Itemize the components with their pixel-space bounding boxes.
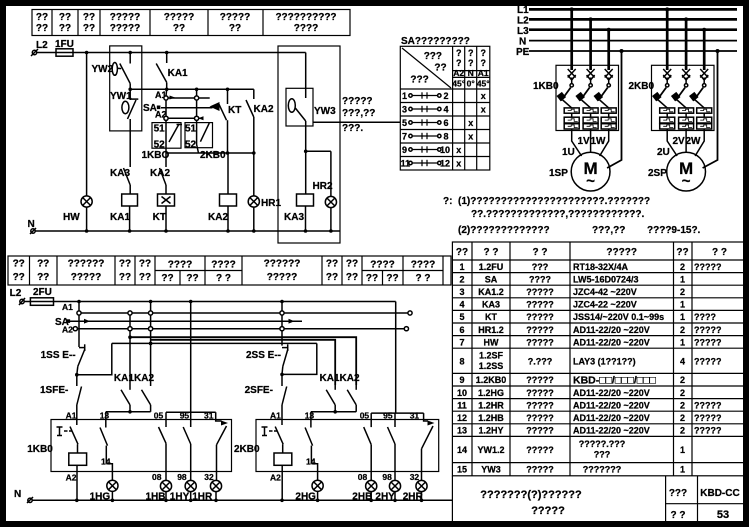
svg-text:52: 52 bbox=[185, 140, 197, 151]
svg-text:YW1.2: YW1.2 bbox=[477, 445, 504, 455]
breaker aux box 1KB0 (contacts 51-52) bbox=[142, 123, 183, 161]
node A2 row bbox=[164, 116, 204, 120]
svg-text:10: 10 bbox=[457, 388, 467, 398]
wire to SA table bbox=[313, 121, 400, 123]
svg-text:32: 32 bbox=[410, 472, 420, 482]
svg-text:HR2: HR2 bbox=[313, 181, 333, 192]
svg-text:A1: A1 bbox=[270, 411, 281, 421]
svg-text:YW3: YW3 bbox=[481, 465, 501, 475]
junction dots on L2 feed wire bbox=[77, 300, 284, 304]
svg-text:1U: 1U bbox=[562, 147, 575, 158]
node M row with arrow to KT bbox=[161, 102, 220, 111]
svg-text:??: ?? bbox=[83, 12, 95, 23]
svg-text:??: ?? bbox=[326, 272, 338, 283]
title block bbox=[452, 476, 747, 526]
svg-text:KA2: KA2 bbox=[208, 212, 228, 223]
svg-text:?????: ????? bbox=[526, 413, 554, 423]
bus N bbox=[529, 40, 737, 42]
svg-text:?????: ????? bbox=[164, 12, 195, 23]
svg-text:12: 12 bbox=[440, 159, 450, 169]
YW1/YW2 dashed enclosure box bbox=[110, 46, 142, 131]
svg-text:AD11-22/20 ~220V: AD11-22/20 ~220V bbox=[573, 426, 650, 436]
2KB0 contact 13-14 bbox=[305, 420, 318, 481]
BOM row texts bbox=[457, 262, 722, 475]
svg-text:????9-15?.: ????9-15?. bbox=[647, 225, 701, 236]
coil KA3 bbox=[284, 150, 314, 232]
svg-text:2: 2 bbox=[680, 413, 685, 423]
svg-text:1KB0: 1KB0 bbox=[533, 81, 559, 92]
wire to latch row bbox=[77, 343, 112, 374]
svg-text:? ?: ? ? bbox=[712, 247, 727, 258]
svg-text:x: x bbox=[468, 132, 473, 142]
svg-text:? ?: ? ? bbox=[216, 273, 231, 284]
svg-text:7: 7 bbox=[402, 132, 407, 142]
svg-text:??: ?? bbox=[119, 272, 131, 283]
svg-text:2: 2 bbox=[680, 287, 685, 297]
svg-text:53: 53 bbox=[717, 509, 729, 521]
2KB0 pole 1 bbox=[652, 9, 675, 130]
svg-text:14: 14 bbox=[457, 445, 467, 455]
junction wire to terminal 13 (unit2) bbox=[311, 410, 356, 420]
svg-text:???????: ??????? bbox=[583, 465, 621, 475]
svg-text:13: 13 bbox=[305, 411, 315, 421]
svg-text:2KB0: 2KB0 bbox=[200, 150, 226, 161]
horizontal bus below YW2 bbox=[130, 88, 254, 92]
1KB0 pole 3 bbox=[594, 30, 617, 131]
svg-text:KT: KT bbox=[153, 212, 166, 223]
svg-text:??: ?? bbox=[119, 259, 131, 270]
2KB0 pole 2 bbox=[671, 19, 694, 130]
svg-text:A1: A1 bbox=[66, 411, 77, 421]
svg-text:AD11-22/20 ~220V: AD11-22/20 ~220V bbox=[573, 400, 650, 410]
svg-text:2: 2 bbox=[680, 426, 685, 436]
node row A2 bbox=[73, 327, 408, 331]
svg-text:1: 1 bbox=[680, 312, 685, 322]
limit switch YW2 bbox=[92, 53, 131, 101]
svg-text:???,??: ???,?? bbox=[592, 225, 625, 236]
svg-text:??: ?? bbox=[676, 247, 688, 258]
svg-text:2U: 2U bbox=[657, 147, 670, 158]
svg-text:51: 51 bbox=[185, 124, 197, 135]
svg-text:N: N bbox=[519, 37, 526, 48]
lamp 1HG bbox=[90, 480, 118, 502]
svg-text:AD11-22/20 ~220V: AD11-22/20 ~220V bbox=[573, 413, 650, 423]
svg-text:??: ?? bbox=[139, 272, 151, 283]
svg-text:??: ?? bbox=[386, 273, 398, 284]
svg-text:?????: ????? bbox=[110, 23, 141, 34]
svg-text:x: x bbox=[456, 159, 461, 169]
svg-text:1.2KB0: 1.2KB0 bbox=[476, 375, 507, 385]
svg-text:? ?: ? ? bbox=[416, 273, 431, 284]
svg-text:????: ???? bbox=[529, 274, 551, 284]
svg-text:A1: A1 bbox=[62, 302, 73, 312]
svg-text:?: ? bbox=[480, 58, 486, 68]
svg-text:08: 08 bbox=[152, 472, 162, 482]
breaker box 2KB0 (bottom) bbox=[234, 411, 439, 472]
svg-text:KT: KT bbox=[228, 105, 241, 116]
svg-text:2: 2 bbox=[680, 375, 685, 385]
svg-text:SA?????????: SA????????? bbox=[401, 36, 470, 47]
svg-text:??: ?? bbox=[366, 273, 378, 284]
svg-text:2KB0: 2KB0 bbox=[629, 81, 655, 92]
svg-text:?: ? bbox=[456, 48, 462, 58]
BOM header row text bbox=[456, 247, 727, 258]
svg-text:4: 4 bbox=[459, 300, 464, 310]
pushbutton 2SF bbox=[245, 374, 287, 419]
wire to latch row (unit2) bbox=[282, 343, 317, 374]
svg-text:N: N bbox=[468, 68, 474, 78]
feed wire unit2 aux bbox=[371, 302, 423, 414]
svg-text:?:: ?: bbox=[443, 196, 452, 207]
2KB0 contact 31-32 NC bbox=[410, 413, 435, 482]
1KB0 pole 2 bbox=[575, 19, 598, 130]
node A1 row bbox=[164, 96, 210, 101]
svg-text:1SS E--: 1SS E-- bbox=[41, 350, 76, 361]
svg-text:KA1: KA1 bbox=[114, 373, 134, 384]
svg-text:?????.???: ?????.??? bbox=[579, 439, 625, 449]
svg-text:2: 2 bbox=[680, 262, 685, 272]
lamp 2HR bbox=[403, 480, 427, 502]
svg-text:4: 4 bbox=[680, 356, 685, 366]
svg-text:??: ?? bbox=[59, 12, 71, 23]
svg-text:????: ???? bbox=[370, 260, 394, 271]
svg-text:9: 9 bbox=[459, 375, 464, 385]
svg-text:6: 6 bbox=[459, 325, 464, 335]
svg-text:2: 2 bbox=[680, 400, 685, 410]
breaker 1KB0 bbox=[556, 65, 619, 130]
svg-text:KA2: KA2 bbox=[340, 373, 360, 384]
wire stubs col 196.6 bbox=[196, 89, 198, 127]
node row A1 bbox=[77, 311, 412, 315]
svg-text:1.2SF: 1.2SF bbox=[479, 351, 504, 361]
svg-text:?: ? bbox=[456, 58, 462, 68]
svg-text:?: ? bbox=[468, 58, 474, 68]
svg-text:?????: ????? bbox=[526, 287, 554, 297]
svg-text:??: ?? bbox=[59, 23, 71, 34]
svg-text:???????(?)??????: ???????(?)?????? bbox=[480, 489, 582, 501]
svg-text:1.2HY: 1.2HY bbox=[478, 426, 503, 436]
motor 1SP bbox=[571, 152, 610, 191]
node N (top circuit return) bbox=[28, 219, 341, 234]
PE wire to 1SP bbox=[607, 51, 621, 168]
breaker aux box 2KB0 (contacts 51-52) bbox=[185, 123, 226, 161]
svg-text:JSS14/~220V 0.1~99s: JSS14/~220V 0.1~99s bbox=[573, 312, 664, 322]
svg-text:05: 05 bbox=[154, 411, 164, 421]
svg-text:??: ?? bbox=[186, 273, 198, 284]
svg-text:??: ?? bbox=[83, 23, 95, 34]
lamp HW branch bbox=[63, 53, 92, 232]
1KB0 contact 13-14 bbox=[100, 420, 112, 481]
pushbutton 1SF bbox=[40, 375, 82, 420]
bus labels L1 L2 L3 N PE bbox=[516, 5, 530, 58]
svg-text:x: x bbox=[481, 105, 486, 115]
svg-text:KA2: KA2 bbox=[254, 104, 274, 115]
svg-text:???,??: ???,?? bbox=[342, 108, 375, 119]
svg-text:2W: 2W bbox=[686, 136, 702, 147]
svg-text:? ?: ? ? bbox=[484, 247, 499, 258]
svg-text:?????: ????? bbox=[531, 505, 565, 517]
svg-text:1: 1 bbox=[402, 91, 407, 101]
svg-text:? ?: ? ? bbox=[671, 510, 686, 521]
contact KA2 (unit2) bbox=[340, 373, 360, 412]
wire row to 2nd unit KA2 bbox=[130, 337, 356, 385]
svg-text:HW: HW bbox=[63, 212, 80, 223]
fuse 2FU bbox=[24, 287, 396, 305]
svg-text:14: 14 bbox=[306, 456, 316, 466]
svg-text:x: x bbox=[481, 91, 486, 101]
svg-text:??????: ?????? bbox=[68, 259, 105, 270]
svg-text:0°: 0° bbox=[467, 79, 476, 89]
svg-text:KBD-CC: KBD-CC bbox=[700, 488, 739, 499]
2KB0 pole 3 bbox=[689, 30, 712, 131]
SA table x marks bbox=[456, 91, 486, 169]
svg-text:?????: ????? bbox=[267, 272, 298, 283]
svg-text:KA1: KA1 bbox=[168, 68, 188, 79]
breaker box 1KB0 (bottom) bbox=[27, 411, 231, 472]
2KB0 contact 95-98 bbox=[382, 413, 395, 482]
bus L1 bbox=[529, 8, 737, 11]
svg-text:1: 1 bbox=[680, 300, 685, 310]
svg-text:2SS E--: 2SS E-- bbox=[246, 350, 281, 361]
svg-text:YW2: YW2 bbox=[92, 64, 114, 75]
svg-text:?????: ????? bbox=[526, 400, 554, 410]
contact KA1 (top) bbox=[156, 53, 188, 90]
svg-text:??: ?? bbox=[13, 259, 25, 270]
svg-text:KA3: KA3 bbox=[284, 212, 304, 223]
svg-text:13: 13 bbox=[457, 426, 467, 436]
svg-text:2SFE-: 2SFE- bbox=[245, 385, 273, 396]
svg-text:????: ???? bbox=[211, 260, 235, 271]
svg-text:?????: ????? bbox=[526, 375, 554, 385]
svg-text:LW5-16D0724/3: LW5-16D0724/3 bbox=[573, 274, 639, 284]
svg-text:7: 7 bbox=[459, 337, 464, 347]
fuse 1FU bbox=[37, 39, 306, 56]
svg-text:????: ???? bbox=[168, 260, 192, 271]
selector switch SA (top circuit) bbox=[143, 90, 167, 120]
selector switch SA (bottom) bbox=[55, 302, 73, 335]
svg-text:?????: ????? bbox=[526, 388, 554, 398]
contact KA1 (unit1) bbox=[114, 335, 134, 411]
coil KA2 bbox=[208, 153, 237, 231]
svg-text:1W: 1W bbox=[591, 136, 607, 147]
svg-text:????: ???? bbox=[294, 23, 318, 34]
svg-text:KA2: KA2 bbox=[134, 373, 154, 384]
svg-text:8: 8 bbox=[444, 132, 449, 142]
svg-text:?????: ????? bbox=[694, 262, 722, 272]
svg-text:10: 10 bbox=[440, 145, 450, 155]
svg-text:??: ?? bbox=[229, 23, 241, 34]
node N (bottom return) bbox=[14, 489, 452, 503]
svg-text:?????: ????? bbox=[526, 337, 554, 347]
svg-text:1.2HB: 1.2HB bbox=[478, 413, 504, 423]
1KB0 main pole + UV coil bbox=[66, 420, 87, 501]
svg-text:1.2SS: 1.2SS bbox=[479, 361, 504, 371]
limit switch YW1 bbox=[110, 88, 138, 132]
wire stubs SA columns bbox=[79, 302, 282, 387]
note text beside YW3 bbox=[342, 96, 375, 134]
feed wire unit1 aux bbox=[166, 302, 216, 413]
svg-text:KA3: KA3 bbox=[482, 300, 500, 310]
SA table contact rows bbox=[401, 91, 486, 169]
svg-text:?????: ????? bbox=[526, 445, 554, 455]
svg-text:?????: ????? bbox=[526, 465, 554, 475]
1KB0 contact 95-98 bbox=[177, 412, 191, 482]
svg-text:??: ?? bbox=[139, 259, 151, 270]
svg-text:L1: L1 bbox=[517, 5, 529, 16]
svg-text:1: 1 bbox=[680, 465, 685, 475]
lower bus of latch circuit bbox=[166, 151, 256, 155]
svg-text:?????: ????? bbox=[526, 312, 554, 322]
svg-text:??: ?? bbox=[434, 63, 446, 74]
svg-text:A2: A2 bbox=[270, 472, 281, 482]
svg-text:YW1: YW1 bbox=[110, 91, 132, 102]
svg-text:2FU: 2FU bbox=[33, 287, 52, 298]
top header table bbox=[32, 10, 350, 36]
pushbutton 1SS bbox=[41, 344, 86, 376]
svg-text:A2: A2 bbox=[62, 325, 73, 335]
svg-text:??: ?? bbox=[346, 259, 358, 270]
lamp 2HB bbox=[352, 480, 377, 502]
svg-text:?????: ????? bbox=[342, 96, 373, 107]
time relay contact KT bbox=[219, 89, 241, 153]
svg-text:?: ? bbox=[480, 48, 486, 58]
svg-text:?????: ????? bbox=[220, 12, 251, 23]
svg-text:1.2HG: 1.2HG bbox=[478, 388, 504, 398]
svg-text:(1)??????????????????????.????: (1)??????????????????????.??????? bbox=[458, 196, 650, 207]
svg-text:?????: ????? bbox=[694, 400, 722, 410]
svg-text:2SP: 2SP bbox=[648, 168, 667, 179]
svg-text:RT18-32X/4A: RT18-32X/4A bbox=[573, 262, 629, 272]
limit switch YW3 bbox=[286, 53, 336, 195]
svg-text:(2)?????????????: (2)????????????? bbox=[458, 225, 550, 236]
svg-text:52: 52 bbox=[154, 140, 166, 151]
svg-text:11: 11 bbox=[401, 159, 411, 169]
svg-text:??: ?? bbox=[161, 273, 173, 284]
contact KA2 above coil KT bbox=[150, 153, 170, 194]
node row M bbox=[70, 319, 302, 324]
junction wire to terminal 13 (unit1) bbox=[106, 410, 151, 420]
1KB0 contact 05-06 bbox=[152, 412, 166, 482]
svg-text:1SFE-: 1SFE- bbox=[40, 385, 68, 396]
motor leads 2SP bbox=[667, 131, 677, 157]
svg-text:?.???: ?.??? bbox=[528, 356, 553, 366]
lamp 1HB bbox=[146, 480, 172, 502]
svg-text:95: 95 bbox=[383, 411, 393, 421]
svg-text:???: ??? bbox=[669, 488, 687, 499]
coil KT (time relay) bbox=[153, 194, 175, 231]
svg-text:??: ?? bbox=[36, 23, 48, 34]
svg-text:15: 15 bbox=[457, 465, 467, 475]
svg-text:3: 3 bbox=[459, 287, 464, 297]
svg-text:N: N bbox=[14, 489, 21, 500]
svg-text:??: ?? bbox=[326, 259, 338, 270]
SA table contact row symbols bbox=[409, 92, 441, 166]
svg-text:KA1.2: KA1.2 bbox=[478, 287, 504, 297]
svg-text:????: ???? bbox=[411, 260, 435, 271]
1KB0 pole 1 bbox=[557, 9, 580, 130]
breaker 2KB0 bbox=[652, 65, 715, 130]
node L2 top feed bbox=[31, 40, 48, 56]
svg-text:KBD-□□/□□□/□□□: KBD-□□/□□□/□□□ bbox=[573, 375, 656, 387]
svg-text:L3: L3 bbox=[517, 26, 529, 37]
wire stubs through SA circles col 166 bbox=[165, 89, 168, 127]
svg-text:???: ??? bbox=[424, 51, 442, 62]
svg-text:??: ?? bbox=[173, 23, 185, 34]
svg-text:51: 51 bbox=[154, 124, 166, 135]
svg-text:2: 2 bbox=[680, 388, 685, 398]
svg-text:L2: L2 bbox=[10, 288, 22, 299]
svg-text:HW: HW bbox=[484, 337, 499, 347]
svg-text:45°: 45° bbox=[477, 79, 490, 89]
wire latch row bbox=[112, 342, 317, 346]
svg-text:08: 08 bbox=[358, 472, 368, 482]
svg-text:??: ?? bbox=[36, 12, 48, 23]
contact KA3 above coil KA1 bbox=[110, 131, 130, 194]
svg-text:31: 31 bbox=[410, 411, 420, 421]
svg-text:HR1.2: HR1.2 bbox=[478, 325, 504, 335]
2KB0 contact 05-06 bbox=[358, 413, 371, 482]
svg-text:?????: ????? bbox=[694, 426, 722, 436]
svg-text:12: 12 bbox=[457, 413, 467, 423]
svg-text:98: 98 bbox=[382, 472, 392, 482]
svg-text:2V: 2V bbox=[673, 136, 686, 147]
svg-text:~: ~ bbox=[586, 173, 595, 190]
svg-text:KA1: KA1 bbox=[320, 373, 340, 384]
lamp HR2 bbox=[306, 151, 337, 231]
wire row to 2nd unit KA1 bbox=[151, 340, 336, 385]
svg-text:LAY3 (1??1??): LAY3 (1??1??) bbox=[573, 356, 636, 366]
svg-text:4: 4 bbox=[444, 105, 449, 115]
svg-text:A1: A1 bbox=[478, 68, 489, 78]
svg-text:14: 14 bbox=[101, 456, 111, 466]
svg-text:A2: A2 bbox=[66, 472, 77, 482]
svg-text:JZC4-22 ~220V: JZC4-22 ~220V bbox=[573, 300, 637, 310]
svg-text:AD11-22/20 ~220V: AD11-22/20 ~220V bbox=[573, 337, 650, 347]
svg-text:??.?????????????,????????????.: ??.?????????????,????????????. bbox=[471, 209, 644, 220]
svg-text:6: 6 bbox=[444, 118, 449, 128]
svg-text:1.2FU: 1.2FU bbox=[479, 262, 504, 272]
svg-text:?: ? bbox=[468, 48, 474, 58]
pushbutton 2SS bbox=[246, 344, 288, 376]
svg-text:???: ??? bbox=[410, 75, 428, 86]
motor 2SP bbox=[667, 152, 706, 191]
svg-text:5: 5 bbox=[459, 312, 464, 322]
svg-text:JZC4-42 ~220V: JZC4-42 ~220V bbox=[573, 287, 637, 297]
svg-text:05: 05 bbox=[360, 411, 370, 421]
lamp 1HR bbox=[192, 480, 221, 502]
coil KA1 bbox=[110, 194, 138, 231]
bus PE bbox=[529, 50, 737, 52]
bus L2 bbox=[529, 18, 737, 21]
svg-text:?????: ????? bbox=[694, 325, 722, 335]
1KB0 contact 31-32 NC bbox=[204, 412, 228, 482]
lamp HR1 bbox=[248, 196, 281, 231]
svg-text:?????: ????? bbox=[526, 325, 554, 335]
2KB0 main pole + UV coil bbox=[270, 420, 292, 501]
svg-text:13: 13 bbox=[100, 411, 110, 421]
svg-text:?????: ????? bbox=[606, 247, 637, 258]
svg-text:???: ??? bbox=[594, 449, 611, 459]
svg-text:?????: ????? bbox=[694, 413, 722, 423]
YW3 tall enclosure bbox=[278, 46, 340, 243]
svg-text:2: 2 bbox=[680, 325, 685, 335]
svg-text:???: ??? bbox=[532, 262, 549, 272]
svg-text:?????: ????? bbox=[71, 272, 102, 283]
svg-text:2KB0: 2KB0 bbox=[234, 444, 260, 455]
svg-text:1.2HR: 1.2HR bbox=[478, 400, 504, 410]
svg-text:?????: ????? bbox=[526, 426, 554, 436]
svg-text:1: 1 bbox=[680, 445, 685, 455]
